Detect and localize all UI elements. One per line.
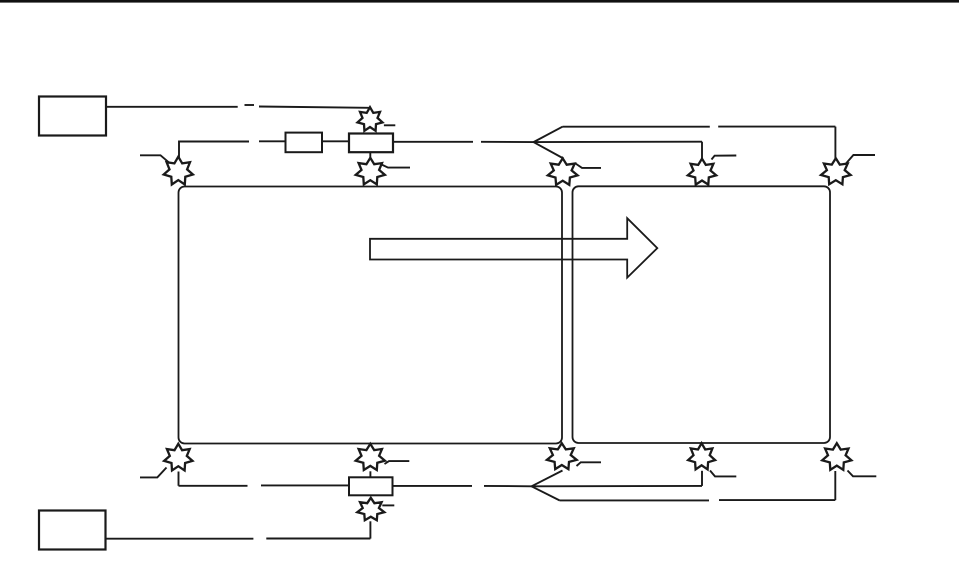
leader of lamp L10 — [848, 471, 877, 477]
wire corner at x=179 down to lamp L1 — [179, 142, 249, 159]
wire rail2 seg2 (to resistor R1) — [259, 140, 286, 142]
leader of lamp L3 — [576, 164, 602, 168]
resistor R3 (wide rect bottom) — [349, 477, 393, 495]
resistor R2 (wide rect top) — [349, 134, 393, 153]
leader of lamp L5 — [846, 155, 875, 164]
lamp L7 (bottom mid) — [356, 444, 385, 470]
wire B1 to lamp L0 (y=106.7) seg1 — [106, 106, 238, 108]
top border rule — [0, 0, 959, 3]
rail y=538.5 seg2 — [266, 538, 370, 540]
leader of lamp L4 — [712, 156, 737, 160]
leader of lamp L9 — [710, 471, 736, 477]
lamp L0 (above R2) — [358, 107, 383, 131]
bottom fork diagonal up to lamp L8 — [532, 471, 563, 487]
bottom rail y=485.8 seg1 — [179, 485, 248, 487]
wire R1 to R2 — [322, 140, 350, 142]
lamp L4 (top x=702) — [688, 159, 716, 185]
wire lamp L6 down to rail y=485.8 — [178, 472, 180, 486]
rounded container left — [179, 187, 563, 444]
rail y=538.5 seg1 (from B2) — [106, 538, 254, 540]
lamp L9 (bottom x=702) — [688, 443, 715, 469]
drop x=702 to lamp L4 — [701, 142, 703, 160]
fork diagonal up to top rail — [534, 127, 563, 142]
lamp L10 (bottom-right) — [822, 443, 851, 470]
lamp L2 (top mid) — [356, 158, 385, 185]
riser x=835 from lamp L10 — [834, 471, 836, 500]
top rail y=126.7 seg1 — [563, 126, 710, 128]
top rail y=126.7 seg2 — [718, 126, 835, 128]
bottom low rail seg2 — [719, 499, 835, 501]
fork diagonal down to lamp L3 — [534, 142, 564, 158]
tick + diagonal into lamp L6 (bottom-left) — [140, 468, 167, 478]
bottom fork diagonal down — [532, 486, 560, 500]
rounded container right — [573, 186, 831, 443]
leader of lamp L11 — [382, 504, 394, 506]
wire R3 to fork seg1 — [393, 485, 473, 487]
stub lamp L7 to R3 — [369, 471, 371, 477]
leader of lamp L7 — [385, 461, 410, 464]
wire B1 to lamp L0 seg2 — [259, 107, 369, 108]
resistor R1 (small rect) — [286, 133, 323, 153]
bottom rail seg2 to R3 — [261, 484, 350, 486]
direction arrow (hollow, pointing right) — [370, 218, 657, 277]
fork horizontal to x=702 — [534, 141, 703, 143]
leader of lamp L8 — [577, 462, 602, 466]
wire R3 to fork seg2 — [484, 485, 532, 487]
wire R2 to fork seg2 — [481, 141, 534, 143]
bottom low rail y=500.4 seg1 — [560, 499, 710, 501]
lamp L8 (bottom junction) — [547, 443, 577, 469]
lamp L11 (below R3) — [357, 498, 384, 520]
riser x=702 from lamp L9 — [701, 471, 703, 486]
lamp L1 (top-left corner) — [164, 157, 193, 185]
tick + diagonal into lamp L1 (top-left) — [140, 155, 171, 164]
stub R2 bottom to lamp L2 — [369, 152, 371, 158]
leader of lamp L0 — [384, 124, 395, 126]
drop x=836 to lamp L5 — [834, 127, 836, 160]
box B1 (top-left unit) — [39, 97, 106, 136]
box B2 (bottom-left unit) — [39, 511, 106, 550]
wire B1 to lamp L0 dash piece — [245, 104, 255, 106]
wire lamp L11 down to rail y=538.5 — [369, 521, 371, 538]
leader of lamp L2 — [382, 165, 411, 168]
lamp L3 (top junction) — [548, 158, 578, 185]
bottom fork horizontal to x=702 — [532, 485, 703, 487]
wire R2 to fork seg1 — [393, 141, 473, 143]
lamp L6 (bottom-left corner) — [164, 444, 192, 471]
lamp L5 (top-right) — [821, 158, 851, 184]
